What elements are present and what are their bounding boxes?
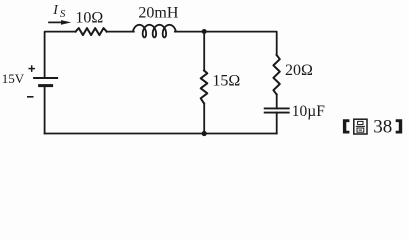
svg-text:10µF: 10µF	[292, 103, 325, 120]
wire between 20ohm resistor and capacitor	[276, 94, 278, 108]
label plus polarity	[29, 65, 36, 72]
wire top-left segment	[45, 32, 76, 78]
figure caption left bracket	[343, 119, 350, 133]
wire top between resistor and inductor	[107, 31, 134, 33]
svg-text:10Ω: 10Ω	[75, 10, 103, 27]
resistor R3 20ohm zigzag	[273, 55, 279, 94]
svg-text:20Ω: 20Ω	[285, 62, 313, 79]
battery V1 short plate	[40, 84, 52, 87]
battery V1 long plate	[34, 77, 57, 79]
resistor R1 10ohm zigzag	[76, 28, 107, 35]
capacitor C1 bottom plate	[265, 112, 289, 114]
current arrow Is head	[61, 20, 71, 25]
wire bottom	[45, 133, 277, 135]
inductor L1 20mH coil	[133, 25, 176, 38]
node B junction dot on bottom wire	[202, 131, 207, 136]
wire middle branch upper	[203, 32, 205, 71]
svg-text:15V: 15V	[2, 71, 25, 86]
resistor R2 15ohm zigzag	[201, 71, 208, 104]
wire right branch lower	[276, 113, 278, 134]
label minus polarity	[27, 96, 34, 98]
node A junction dot	[202, 29, 207, 34]
svg-text:I: I	[52, 3, 59, 18]
svg-text:S: S	[60, 8, 66, 20]
label Is current	[52, 3, 66, 20]
figure caption glyph tu (chinese: picture)	[354, 119, 367, 134]
svg-text:38: 38	[373, 117, 392, 138]
svg-text:20mH: 20mH	[138, 4, 178, 21]
figure caption right bracket	[396, 119, 403, 133]
wire middle branch lower	[203, 103, 205, 133]
capacitor C1 top plate	[265, 107, 289, 109]
wire battery lower stub	[44, 86, 46, 134]
svg-text:15Ω: 15Ω	[212, 72, 240, 89]
wire top right of inductor to node A and corner	[175, 32, 277, 55]
current arrow Is shaft	[49, 21, 62, 23]
